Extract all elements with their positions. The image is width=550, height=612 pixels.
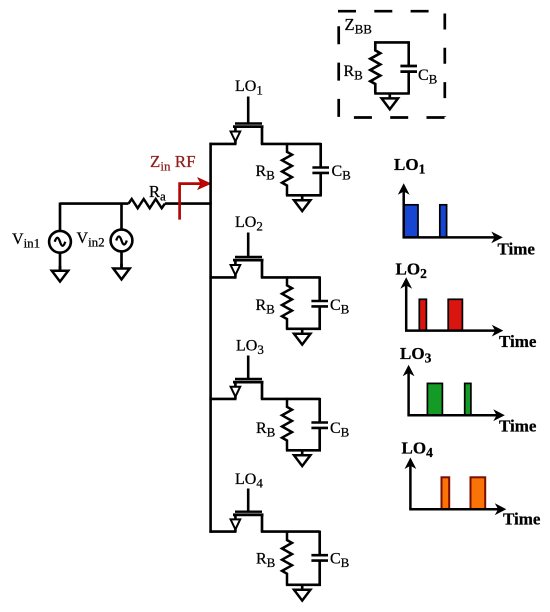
svg-text:Time: Time [499,332,537,351]
pulse LO4 a [442,477,450,509]
dashed box [338,11,445,117]
pulse LO4 b [471,477,486,509]
capacitor C_B 1 [312,143,329,195]
voltage source V_in1 [49,203,71,282]
resistor R_B 4 [282,531,292,585]
wire RC bottom 3 [286,449,321,452]
transistor M4 (gate LO4) [231,489,264,532]
wire drain M3 to RC [261,398,320,401]
ground RC 2 [294,329,310,345]
pulse LO3 b [465,383,471,415]
capacitor C_B 3 [311,398,328,450]
wire input rail [60,202,129,205]
capacitor C_B 4 [311,531,328,585]
axis LO2 [405,284,408,330]
ground RC 1 [294,195,310,211]
pulse LO3 a [427,383,442,415]
svg-text:Time: Time [503,510,541,529]
wire Z_BB RC bottom [374,92,410,95]
wire source M4 to bus [209,530,236,533]
Z_in RF arrow [180,178,211,220]
axis LO1 [402,191,405,238]
wire R_a to bus [165,202,212,205]
wire drain M2 to RC [261,276,320,279]
wire main bus [209,143,212,533]
wire source M3 to bus [209,398,236,401]
transistor M2 (gate LO2) [231,233,264,278]
svg-text:Time: Time [499,417,537,436]
resistor R_B 1 [282,143,292,195]
pulse LO1 b [440,205,447,238]
ground RC 3 [294,450,310,466]
transistor M1 (gate LO1) [231,97,264,144]
ground RC 4 [294,585,310,601]
axis LO4 [409,465,412,510]
wire drain M1 to RC [261,143,321,146]
transistor M3 (gate LO3) [231,356,264,399]
resistor R_B 3 [282,398,292,450]
capacitor C_B 2 [311,276,328,328]
resistor R_B 2 [282,276,292,328]
wire RC bottom 1 [286,194,322,197]
voltage source V_in2 [111,203,133,280]
wire source M2 to bus [209,276,236,279]
resistor R_B inset [370,41,380,93]
wire Z_BB RC top [374,41,410,44]
wire V_in1 to top rail [59,203,62,231]
pulse LO2 b [448,299,462,330]
wire source M1 to bus [209,143,236,146]
ground Z_BB [382,94,398,110]
svg-text:Zin RF: Zin RF [150,152,196,173]
axis LO3 [407,372,410,415]
svg-text:Time: Time [498,240,536,259]
pulse LO1 a [404,205,418,238]
resistor R_a [129,199,165,208]
wire RC bottom 4 [286,583,321,586]
capacitor C_B inset [400,41,417,93]
wire drain M4 to RC [261,530,320,533]
wire RC bottom 2 [286,327,321,330]
pulse LO2 a [419,299,426,330]
